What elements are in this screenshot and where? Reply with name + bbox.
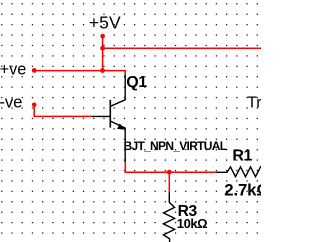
resistor R1 xyxy=(216,167,261,177)
svg-text:+5V: +5V xyxy=(89,13,121,33)
svg-text:Tr: Tr xyxy=(247,95,261,112)
wire node down to R3 xyxy=(168,172,170,192)
svg-text:Q1: Q1 xyxy=(126,74,147,91)
wire -ve to base xyxy=(34,105,92,117)
svg-text:-ve: -ve xyxy=(0,93,22,112)
svg-text:BJT_NPN_VIRTUAL: BJT_NPN_VIRTUAL xyxy=(124,139,227,153)
terminal dot -ve xyxy=(32,103,37,108)
wire emitter to node xyxy=(125,162,216,172)
resistor R3 xyxy=(163,192,174,242)
svg-text:2.7kΩ: 2.7kΩ xyxy=(224,181,261,200)
terminal dot +ve xyxy=(32,68,37,73)
wire top rail to right edge xyxy=(103,47,261,49)
svg-text:10kΩ: 10kΩ xyxy=(177,216,207,231)
junction +5V rail and +ve wire xyxy=(100,68,105,73)
junction emitter node xyxy=(167,170,172,175)
wire +ve to collector corner xyxy=(34,71,125,75)
wire +5V vertical drop xyxy=(102,36,104,70)
power terminal dot +5V xyxy=(100,34,105,39)
junction of +5V rail xyxy=(100,46,105,51)
svg-text:R1: R1 xyxy=(232,148,252,165)
svg-text:+ve: +ve xyxy=(0,61,26,79)
transistor Q1 xyxy=(92,74,125,162)
